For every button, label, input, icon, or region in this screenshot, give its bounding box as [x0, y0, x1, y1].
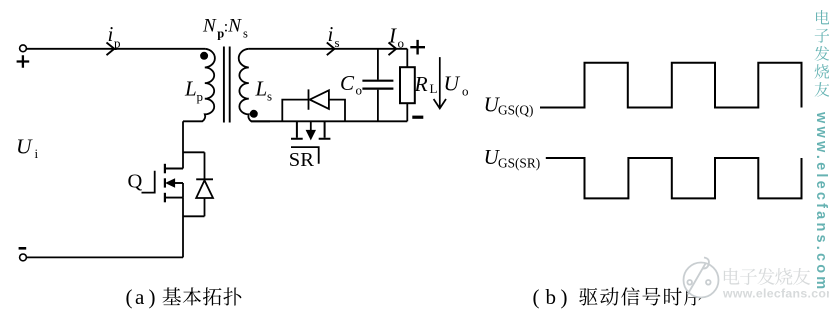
SR MOSFET source contact (right)	[319, 121, 331, 138]
wire top from input terminal to primary winding	[27, 48, 206, 50]
svg-text:p: p	[114, 36, 121, 51]
wire secondary bottom rail	[251, 120, 407, 122]
SR body-diode branch loop	[282, 100, 345, 122]
wire source tee to Q body diode branch	[183, 215, 205, 217]
svg-text:i: i	[35, 146, 39, 161]
output capacitor C_o branch wire lower	[377, 90, 379, 122]
Q MOSFET source contact	[164, 193, 166, 203]
input terminal bottom-left circle	[20, 254, 27, 261]
wire secondary top rail to output	[248, 48, 407, 50]
svg-text:L: L	[430, 81, 438, 96]
minus sign input	[19, 247, 27, 250]
svg-text:): )	[149, 285, 156, 309]
svg-text:GS(Q): GS(Q)	[498, 103, 533, 118]
svg-text:o: o	[462, 84, 469, 99]
svg-text:SR: SR	[289, 149, 314, 171]
svg-text:C: C	[340, 71, 355, 95]
transformer T1 primary winding L_p	[183, 49, 215, 122]
minus sign output	[412, 116, 423, 119]
svg-text:o: o	[356, 83, 363, 98]
Q body diode branch vertical lower	[204, 198, 206, 216]
polarity dot primary	[200, 52, 208, 60]
wire bottom rail to input terminal	[27, 256, 184, 258]
svg-text:GS(SR): GS(SR)	[498, 155, 540, 170]
svg-text:(: (	[533, 285, 540, 309]
current arrow i_p on top wire	[107, 43, 115, 56]
output capacitor C_o branch wire upper	[377, 49, 379, 80]
watermark text 电子发烧友 gray	[724, 268, 740, 285]
svg-text:p: p	[197, 89, 204, 104]
SR MOSFET gate electrode and lead	[291, 147, 319, 164]
Q body diode (pointing up)	[196, 179, 213, 198]
wire R_L top lead	[406, 49, 408, 67]
waveform U_GS(Q)	[540, 63, 802, 108]
SR body diode (pointing left)	[309, 89, 329, 109]
svg-text:L: L	[255, 77, 268, 101]
watermark logo circle bottom-right	[684, 258, 719, 298]
svg-text:o: o	[398, 36, 405, 51]
svg-text:i: i	[108, 22, 114, 46]
capacitor C_o plates	[362, 81, 393, 89]
wire R_L bottom lead	[406, 103, 408, 121]
svg-text:L: L	[184, 77, 197, 101]
svg-text:www.elecfans.com: www.elecfans.com	[813, 111, 829, 292]
Q MOSFET body contact with arrow	[164, 178, 166, 187]
svg-text:I: I	[388, 24, 397, 48]
svg-text:s: s	[243, 27, 248, 41]
polarity dot secondary	[250, 110, 258, 118]
wire source down to bottom rail	[182, 198, 184, 258]
Q body diode branch vertical upper	[204, 152, 206, 179]
svg-text:N: N	[227, 16, 242, 37]
svg-text:U: U	[16, 134, 33, 158]
SR MOSFET drain contact (left)	[291, 121, 303, 138]
SR MOSFET body lead with arrow	[310, 121, 312, 131]
current arrow i_s	[327, 43, 335, 56]
plus sign output	[410, 40, 425, 55]
svg-text:(: (	[126, 285, 133, 309]
wire drain tee to Q body diode branch	[183, 151, 205, 153]
Q MOSFET drain contact	[164, 164, 166, 174]
output voltage U_o arrow	[434, 57, 446, 108]
Q MOSFET gate electrode and lead	[142, 171, 155, 193]
svg-text:R: R	[414, 72, 428, 96]
plus sign input	[17, 55, 30, 68]
transformer T1 secondary winding L_s	[239, 49, 270, 122]
svg-text:s: s	[335, 35, 340, 50]
svg-text:a: a	[135, 285, 145, 309]
svg-text:U: U	[444, 71, 461, 95]
svg-text:i: i	[328, 22, 334, 46]
svg-text:Q: Q	[128, 171, 143, 193]
svg-text:): )	[561, 285, 568, 309]
wire body lead down to source	[182, 183, 184, 198]
watermark vertical teal 电子发烧友	[816, 10, 829, 24]
transformer core	[224, 47, 230, 123]
load resistor R_L body	[400, 67, 415, 103]
waveform U_GS(SR)	[546, 158, 802, 198]
svg-text:N: N	[202, 16, 217, 37]
wire primary bottom to MOSFET drain	[182, 121, 184, 168]
current arrow I_o	[389, 43, 397, 56]
svg-text:s: s	[267, 89, 272, 104]
input terminal top-left circle	[20, 45, 27, 52]
svg-text:b: b	[546, 285, 557, 309]
